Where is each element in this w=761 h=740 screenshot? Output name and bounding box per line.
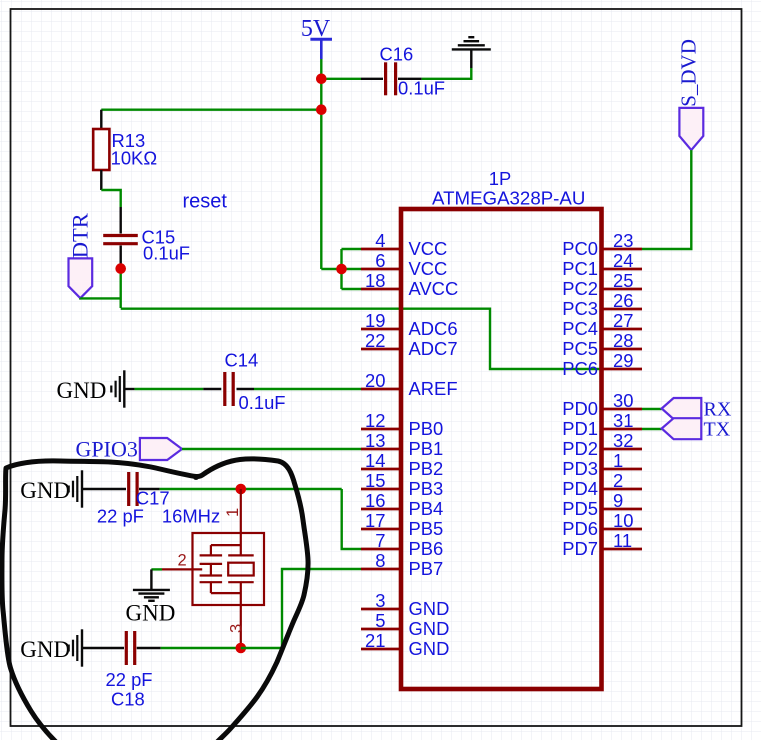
net flag TX	[662, 418, 731, 440]
svg-text:3: 3	[228, 624, 246, 633]
wire GND to C17	[82, 488, 126, 490]
pin 28 PC5	[562, 330, 642, 359]
svg-text:RX: RX	[704, 399, 732, 421]
pin 26 PC3	[562, 290, 642, 319]
svg-text:2: 2	[613, 470, 623, 491]
svg-text:26: 26	[613, 290, 633, 311]
wire crystal pin2 to ground	[151, 569, 162, 590]
svg-text:13: 13	[365, 430, 385, 451]
svg-text:22 pF: 22 pF	[106, 669, 153, 690]
svg-text:1: 1	[224, 508, 242, 517]
svg-text:29: 29	[613, 350, 633, 371]
svg-text:15: 15	[365, 470, 385, 491]
pin 18 AVCC	[361, 270, 458, 299]
svg-text:PB2: PB2	[409, 458, 444, 479]
junction (5V/C16)	[316, 74, 327, 85]
net flag RX	[662, 398, 732, 421]
wire C16 net	[321, 78, 383, 80]
svg-text:25: 25	[613, 270, 633, 291]
wire C15 to DTR node	[119, 246, 121, 309]
wire reset net to PC6	[121, 309, 602, 369]
wire GPIO3 to PB1	[182, 448, 361, 450]
svg-text:2: 2	[178, 552, 187, 570]
pin 3 GND	[361, 590, 449, 619]
pin 2 PD4	[562, 470, 642, 499]
svg-text:19: 19	[365, 310, 385, 331]
svg-text:22: 22	[365, 330, 385, 351]
wire crystal node to PB6	[342, 489, 361, 549]
svg-text:PC5: PC5	[562, 338, 598, 359]
wire 5V to R13	[101, 110, 321, 129]
svg-text:VCC: VCC	[409, 238, 448, 259]
pin 11 PD7	[562, 530, 642, 559]
svg-text:AREF: AREF	[409, 378, 458, 399]
svg-text:10KΩ: 10KΩ	[111, 148, 157, 169]
pin 29 PC6	[562, 350, 642, 379]
svg-text:20: 20	[365, 370, 385, 391]
wire PD1 to TX	[642, 428, 662, 430]
svg-text:PD6: PD6	[562, 518, 598, 539]
pin 20 AREF	[361, 370, 458, 399]
pin 19 ADC6	[361, 310, 458, 339]
wire R13 to C15	[101, 170, 120, 234]
svg-text:PB1: PB1	[409, 438, 444, 459]
capacitor C17	[129, 472, 137, 506]
svg-text:DTR: DTR	[68, 213, 93, 258]
svg-text:16: 16	[365, 490, 385, 511]
wire C17 to crystal node	[139, 488, 342, 490]
svg-text:0.1uF: 0.1uF	[143, 243, 190, 264]
svg-text:ADC6: ADC6	[409, 318, 458, 339]
svg-text:11: 11	[613, 530, 632, 551]
ground GND (AREF)	[57, 370, 125, 407]
svg-text:GND: GND	[57, 378, 107, 403]
svg-text:PC2: PC2	[562, 278, 598, 299]
svg-text:C18: C18	[111, 689, 145, 710]
wire DTR branch	[80, 297, 120, 300]
junction (C15/DTR)	[115, 263, 126, 274]
ground GND (C17)	[20, 470, 82, 507]
svg-text:VCC: VCC	[409, 258, 448, 279]
pin 31 PD1	[562, 410, 642, 439]
pin 1 PD3	[562, 450, 642, 479]
capacitor C16	[386, 62, 396, 95]
svg-text:32: 32	[613, 430, 633, 451]
crystal Y1 16MHz (3-pin with load caps)	[162, 489, 264, 648]
svg-text:21: 21	[365, 630, 385, 651]
pin 23 PC0	[562, 230, 642, 259]
svg-text:PC0: PC0	[562, 238, 598, 259]
svg-text:3: 3	[375, 590, 385, 611]
wire C16 to earth	[398, 50, 471, 79]
pin 24 PC1	[562, 250, 642, 279]
svg-text:27: 27	[613, 310, 633, 331]
capacitor C15	[103, 236, 138, 244]
svg-text:GND: GND	[409, 638, 450, 659]
crystal pin labels 1 2 3	[178, 508, 246, 633]
svg-text:1: 1	[613, 450, 623, 471]
wire crystal pin3 to PB7	[241, 569, 361, 648]
pin 17 PB5	[361, 510, 443, 539]
IC name ATMEGA328P-AU	[432, 188, 585, 209]
C18 value labels	[106, 669, 153, 710]
svg-text:30: 30	[613, 390, 633, 411]
svg-text:10: 10	[613, 510, 633, 531]
pin 15 PB3	[361, 470, 443, 499]
svg-text:7: 7	[375, 530, 385, 551]
svg-text:PC3: PC3	[562, 298, 598, 319]
svg-text:PC1: PC1	[562, 258, 598, 279]
svg-text:GND: GND	[20, 637, 70, 662]
wire C18 to crystal pin3	[137, 647, 241, 649]
svg-text:PC6: PC6	[562, 358, 598, 379]
junction (crystal pin3)	[236, 643, 247, 654]
power flag 5V	[301, 16, 332, 59]
svg-text:PD4: PD4	[562, 478, 598, 499]
svg-text:PC4: PC4	[562, 318, 598, 339]
svg-text:9: 9	[613, 490, 623, 511]
pin 27 PC4	[562, 310, 642, 339]
pin 7 PB6	[361, 530, 443, 559]
svg-text:0.1uF: 0.1uF	[398, 78, 445, 99]
svg-text:4: 4	[375, 230, 385, 251]
wire S_DVD to PC0	[642, 150, 691, 249]
C17 value labels	[97, 488, 170, 527]
svg-text:ATMEGA328P-AU: ATMEGA328P-AU	[432, 188, 585, 209]
pin 10 PD6	[562, 510, 642, 539]
svg-text:8: 8	[375, 550, 385, 571]
earth ground (top)	[452, 37, 491, 49]
pin 30 PD0	[562, 390, 642, 419]
svg-text:6: 6	[375, 250, 385, 271]
svg-text:C16: C16	[380, 44, 414, 65]
svg-text:C14: C14	[225, 350, 259, 371]
pin 32 PD2	[562, 430, 642, 459]
net flag GPIO3	[76, 437, 183, 462]
pin 22 ADC7	[361, 330, 458, 359]
svg-text:PB4: PB4	[409, 498, 444, 519]
svg-text:PB6: PB6	[409, 538, 444, 559]
svg-text:12: 12	[365, 410, 385, 431]
C16 value labels	[380, 44, 446, 99]
pin 12 PB0	[361, 410, 443, 439]
junction (5V/R13)	[316, 104, 327, 115]
svg-text:PD3: PD3	[562, 458, 598, 479]
capacitor C18	[126, 631, 134, 665]
svg-text:14: 14	[365, 450, 385, 471]
svg-text:PB3: PB3	[409, 478, 444, 499]
label 16MHz	[162, 506, 220, 527]
svg-text:PB5: PB5	[409, 518, 444, 539]
wire 5V trunk	[320, 59, 322, 269]
junction (VCC)	[336, 264, 347, 275]
svg-text:1P: 1P	[489, 168, 512, 189]
pin 25 PC2	[562, 270, 642, 299]
ground GND (C18)	[20, 629, 82, 666]
svg-text:28: 28	[613, 330, 633, 351]
wire VCC junction	[321, 249, 361, 289]
pin 21 GND	[361, 630, 449, 659]
pin 5 GND	[361, 610, 449, 639]
pin 4 VCC	[361, 230, 447, 259]
R13 labels	[111, 130, 157, 169]
wire C14 to AREF	[237, 388, 362, 390]
svg-text:5: 5	[375, 610, 385, 631]
pin 6 VCC	[361, 250, 447, 279]
svg-text:reset: reset	[183, 190, 228, 212]
pin 14 PB2	[361, 450, 443, 479]
C15 value labels	[142, 227, 191, 264]
svg-text:PB7: PB7	[409, 558, 444, 579]
svg-text:PD2: PD2	[562, 438, 598, 459]
svg-text:ADC7: ADC7	[409, 338, 458, 359]
svg-text:TX: TX	[704, 419, 731, 441]
svg-text:PD5: PD5	[562, 498, 598, 519]
wire GND to C18	[82, 647, 124, 649]
svg-text:PD7: PD7	[562, 538, 598, 559]
svg-text:GPIO3: GPIO3	[76, 437, 138, 462]
hand-drawn highlight loop around crystal circuit	[2, 459, 308, 740]
capacitor C14	[225, 372, 233, 406]
svg-text:GND: GND	[409, 598, 450, 619]
C14 value labels	[225, 350, 286, 414]
wire GND to C14	[124, 388, 221, 390]
pin 13 PB1	[361, 430, 443, 459]
svg-text:PD0: PD0	[562, 398, 598, 419]
svg-text:PB0: PB0	[409, 418, 444, 439]
svg-text:GND: GND	[20, 478, 70, 503]
svg-text:16MHz: 16MHz	[162, 506, 220, 527]
svg-text:17: 17	[365, 510, 385, 531]
earth ground (crystal)	[126, 590, 176, 625]
svg-text:GND: GND	[409, 618, 450, 639]
svg-text:S_DVD: S_DVD	[677, 39, 701, 107]
junction (crystal pin1)	[236, 484, 247, 495]
op IC U1 ATMEGA328P-AU body	[401, 209, 602, 689]
pin 8 PB7	[361, 550, 443, 579]
svg-text:31: 31	[613, 410, 633, 431]
svg-text:0.1uF: 0.1uF	[239, 392, 286, 413]
pin 16 PB4	[361, 490, 443, 519]
pin 9 PD5	[562, 490, 642, 519]
svg-text:22 pF: 22 pF	[97, 506, 144, 527]
wire PD0 to RX	[642, 408, 662, 410]
svg-text:24: 24	[613, 250, 633, 271]
net flag S_DVD	[677, 39, 704, 150]
label reset	[183, 190, 228, 212]
net flag DTR	[68, 213, 93, 298]
svg-text:PD1: PD1	[562, 418, 598, 439]
svg-text:23: 23	[613, 230, 633, 251]
IC designator 1P	[489, 168, 512, 189]
svg-text:GND: GND	[126, 600, 176, 625]
svg-text:AVCC: AVCC	[409, 278, 459, 299]
svg-text:18: 18	[365, 270, 385, 291]
resistor R13	[93, 129, 109, 170]
